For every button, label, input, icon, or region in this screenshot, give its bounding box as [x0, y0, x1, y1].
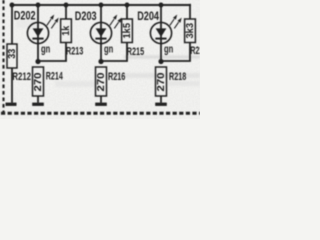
svg-text:1k5: 1k5 [122, 23, 133, 39]
svg-text:R217: R217 [190, 45, 200, 57]
svg-text:R218: R218 [169, 71, 186, 83]
svg-text:1k: 1k [61, 25, 72, 35]
svg-text:33: 33 [7, 48, 18, 58]
svg-text:R216: R216 [108, 71, 125, 83]
svg-text:D203: D203 [75, 9, 97, 23]
svg-text:R214: R214 [46, 70, 63, 82]
svg-text:R215: R215 [127, 46, 144, 58]
svg-text:3k3: 3k3 [185, 23, 196, 39]
svg-text:R213: R213 [66, 46, 83, 58]
svg-text:D202: D202 [14, 9, 36, 23]
svg-text:R212: R212 [12, 71, 31, 83]
svg-text:D204: D204 [137, 9, 159, 23]
